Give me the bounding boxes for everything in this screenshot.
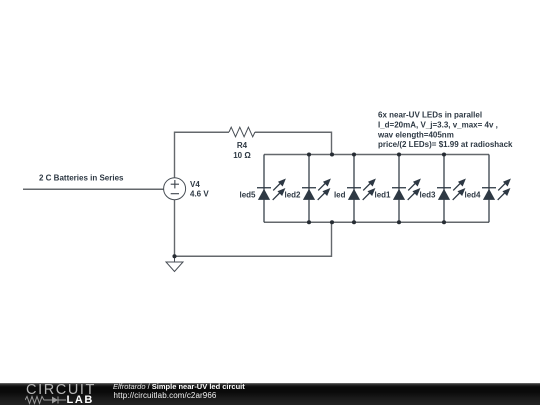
lead: branch led	[353, 155, 355, 223]
svg-text:led3: led3	[419, 190, 436, 199]
svg-text:R4: R4	[237, 141, 248, 150]
svg-text:6x near-UV LEDs in parallel: 6x near-UV LEDs in parallel	[378, 111, 482, 120]
wire: bottom return	[175, 222, 332, 256]
svg-text:led1: led1	[374, 190, 391, 199]
footer title	[113, 383, 245, 391]
lead: branch led2	[308, 155, 310, 223]
logo resistor-diode glyph	[25, 395, 69, 405]
resistor R4	[229, 127, 255, 137]
wire: source bottom lead	[174, 200, 176, 257]
svg-text:led5: led5	[239, 190, 256, 199]
footer bar	[0, 383, 540, 405]
lead: branch led3	[443, 155, 445, 223]
wire: bottom rail	[264, 221, 489, 223]
polarity marks of V4	[171, 180, 179, 194]
LED led3	[437, 180, 465, 200]
logo CIRCUIT	[26, 383, 96, 397]
wire: source top to resistor	[175, 132, 230, 178]
svg-text:wav elength=405nm: wav elength=405nm	[377, 130, 454, 139]
svg-text:4.6 V: 4.6 V	[190, 190, 209, 199]
footer url	[114, 392, 217, 400]
svg-text:led2: led2	[284, 190, 301, 199]
svg-text:2 C Batteries in Series: 2 C Batteries in Series	[39, 173, 124, 182]
LED led4	[482, 180, 510, 200]
LED led2	[302, 180, 330, 200]
junction dots bottom rail	[172, 220, 446, 258]
svg-text:led: led	[334, 190, 346, 199]
svg-text:10 Ω: 10 Ω	[233, 151, 251, 160]
wire: top rail	[264, 154, 489, 156]
LED led1	[392, 180, 420, 200]
lead: branch led1	[398, 155, 400, 223]
svg-text:price/(2 LEDs)= $1.99 at radio: price/(2 LEDs)= $1.99 at radioshack	[378, 140, 513, 149]
junction dots top rail	[307, 152, 446, 156]
wire: battery left lead	[23, 188, 164, 190]
LED led5	[257, 180, 285, 200]
wire: resistor to feed corner	[255, 132, 332, 154]
lead: branch led5	[263, 155, 265, 223]
LED led	[347, 180, 375, 200]
svg-text:V4: V4	[190, 180, 200, 189]
logo LAB	[67, 395, 94, 406]
svg-text:led4: led4	[464, 190, 481, 199]
ground	[166, 256, 183, 271]
lead: branch led4	[488, 155, 490, 223]
voltage source V4	[164, 178, 186, 200]
svg-text:I_d=20mA, V_j=3.3, v_max= 4v ,: I_d=20mA, V_j=3.3, v_max= 4v ,	[378, 120, 498, 129]
